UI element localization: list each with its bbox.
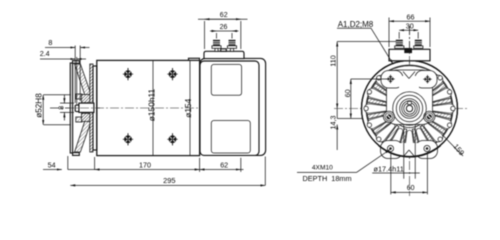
svg-text:ø154: ø154 — [183, 98, 193, 117]
svg-text:60: 60 — [407, 185, 415, 192]
svg-text:DEPTH 18mm: DEPTH 18mm — [303, 174, 352, 183]
svg-text:54: 54 — [48, 160, 56, 169]
svg-text:ø17.4h11: ø17.4h11 — [374, 165, 404, 174]
svg-text:60: 60 — [343, 89, 352, 97]
svg-text:66: 66 — [407, 13, 415, 22]
svg-text:ø150h11: ø150h11 — [146, 88, 156, 121]
svg-text:30: 30 — [406, 22, 414, 31]
svg-text:110: 110 — [328, 55, 337, 66]
svg-text:14,3: 14,3 — [328, 116, 337, 130]
svg-text:ø52H8: ø52H8 — [35, 93, 44, 118]
svg-text:159: 159 — [451, 142, 466, 157]
svg-text:26: 26 — [220, 24, 228, 31]
svg-text:2.4: 2.4 — [40, 49, 50, 58]
svg-text:A1,D2;M8: A1,D2;M8 — [338, 20, 374, 29]
svg-text:62: 62 — [220, 161, 228, 170]
svg-text:8: 8 — [48, 38, 52, 47]
svg-text:62: 62 — [220, 12, 228, 19]
svg-text:170: 170 — [139, 161, 151, 170]
svg-text:295: 295 — [163, 176, 175, 185]
svg-text:4XM10: 4XM10 — [312, 165, 333, 172]
